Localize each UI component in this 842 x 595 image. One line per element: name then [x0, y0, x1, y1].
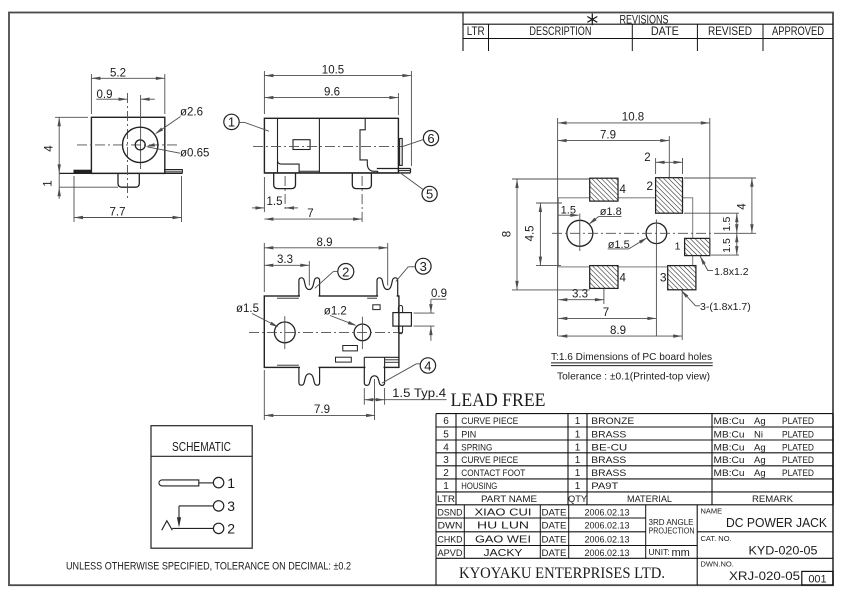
schematic center pin symbol — [159, 480, 199, 486]
svg-text:001: 001 — [808, 573, 826, 585]
svg-text:CHKD: CHKD — [438, 534, 463, 545]
svg-text:CURVE PIECE: CURVE PIECE — [461, 416, 518, 427]
svg-text:Ag: Ag — [754, 416, 766, 427]
svg-text:4.5: 4.5 — [524, 225, 536, 241]
svg-text:DC POWER JACK: DC POWER JACK — [726, 516, 828, 530]
svg-text:DATE: DATE — [542, 507, 567, 518]
sheet number box — [802, 571, 833, 585]
dimension 10.8 — [557, 118, 559, 336]
spring 4 tab notch — [364, 356, 399, 358]
dimension 1.5 lower right — [711, 254, 739, 256]
bottom view small slot a — [373, 305, 380, 310]
svg-text:DATE: DATE — [651, 26, 679, 38]
dimension 7.7 — [73, 176, 75, 222]
dimension 8.9 pcb — [681, 290, 683, 340]
title block grid — [436, 517, 646, 519]
front view bottom pin — [118, 173, 139, 187]
svg-text:APVD: APVD — [438, 548, 463, 559]
svg-text:CAT. NO.: CAT. NO. — [701, 534, 732, 543]
front view center pin hole circle — [135, 140, 145, 150]
svg-text:7.9: 7.9 — [314, 404, 330, 416]
svg-text:6: 6 — [443, 416, 449, 427]
svg-text:DSND: DSND — [438, 507, 463, 518]
curve piece 3 wave tab — [378, 295, 397, 297]
schematic box — [151, 426, 252, 549]
side view bottom-left contact step — [278, 161, 300, 174]
side view right leg axis — [361, 176, 363, 224]
pcb hole 4 bottom-left hatched — [590, 266, 618, 289]
svg-text:PLATED: PLATED — [782, 429, 814, 440]
svg-text:7: 7 — [307, 208, 313, 220]
svg-text:10.5: 10.5 — [322, 65, 344, 77]
svg-text:2006.02.13: 2006.02.13 — [585, 507, 630, 518]
svg-text:7: 7 — [603, 307, 609, 319]
svg-text:1: 1 — [575, 468, 581, 479]
svg-text:10.8: 10.8 — [622, 112, 644, 124]
bottom view bottom edge ledge lines — [277, 364, 299, 366]
svg-text:PLATED: PLATED — [782, 416, 814, 427]
svg-text:DATE: DATE — [542, 521, 567, 532]
svg-text:REVISIONS: REVISIONS — [620, 14, 669, 26]
svg-text:T:1.6 Dimensions of PC boa: T:1.6 Dimensions of PC board holes — [551, 351, 712, 363]
svg-text:SCHEMATIC: SCHEMATIC — [172, 440, 231, 454]
svg-text:MB:Cu: MB:Cu — [714, 468, 745, 479]
svg-text:PA9T: PA9T — [591, 481, 618, 492]
callout 5 pin — [422, 186, 437, 201]
svg-text:MB:Cu: MB:Cu — [714, 429, 745, 440]
svg-text:CONTACT FOOT: CONTACT FOOT — [461, 468, 525, 479]
svg-text:UNLESS OTHERWISE SPECIFIED,: UNLESS OTHERWISE SPECIFIED, TOLERANCE ON… — [66, 560, 351, 572]
svg-text:4: 4 — [620, 184, 627, 196]
svg-text:1.5: 1.5 — [721, 238, 733, 253]
svg-text:1: 1 — [227, 475, 235, 491]
bottom view hole 1.5 — [274, 322, 295, 343]
svg-text:1: 1 — [575, 455, 581, 466]
svg-text:4: 4 — [620, 273, 627, 285]
svg-text:PLATED: PLATED — [782, 468, 814, 479]
parts and title block table — [436, 413, 833, 415]
spring 4 wave tab — [365, 366, 383, 368]
pcb hole 1 right hatched — [685, 238, 710, 255]
svg-text:JACKY: JACKY — [484, 548, 523, 559]
svg-text:HU LUN: HU LUN — [477, 521, 529, 532]
svg-text:3.3: 3.3 — [572, 289, 588, 301]
svg-text:PIN: PIN — [461, 429, 476, 440]
front view base line — [59, 172, 182, 174]
pcb jack outline top view — [558, 198, 692, 267]
svg-text:3: 3 — [227, 498, 235, 514]
svg-text:8: 8 — [501, 231, 513, 237]
svg-text:ø2.6: ø2.6 — [180, 106, 203, 118]
svg-text:REMARK: REMARK — [752, 494, 794, 505]
svg-text:1: 1 — [228, 115, 235, 130]
svg-text:BRONZE: BRONZE — [591, 416, 634, 427]
pcb hole 2 top-right hatched — [656, 178, 683, 214]
callout 3 curve piece — [415, 258, 431, 274]
svg-text:1.5: 1.5 — [721, 217, 733, 232]
schematic terminal 3 — [213, 501, 223, 511]
callout 6 curve piece — [423, 131, 438, 146]
svg-text:5.2: 5.2 — [110, 67, 126, 79]
side view left leg axis — [284, 176, 286, 212]
pcb horizontal centerline — [552, 232, 716, 234]
label 1.8x1.2 with leader — [700, 256, 708, 271]
bottom view horizontal centerline — [249, 331, 404, 333]
label 3-(1.8x1.7) with leader — [681, 290, 696, 306]
dimension 3.3 pcb — [603, 288, 605, 304]
svg-text:1: 1 — [443, 481, 449, 492]
svg-text:5: 5 — [443, 429, 449, 440]
schematic terminal 2 — [213, 523, 223, 533]
svg-text:1: 1 — [575, 429, 581, 440]
svg-text:7.7: 7.7 — [110, 207, 126, 219]
svg-text:3: 3 — [420, 259, 427, 274]
bottom view top edge ledge lines — [277, 297, 299, 299]
revisions asterisk — [591, 14, 593, 26]
svg-text:Ag: Ag — [754, 455, 766, 466]
svg-text:2: 2 — [227, 521, 235, 537]
svg-text:LTR: LTR — [437, 494, 455, 505]
svg-text:BRASS: BRASS — [591, 468, 626, 479]
side view small window detail — [293, 140, 310, 150]
svg-text:DATE: DATE — [542, 534, 567, 545]
svg-text:9.6: 9.6 — [324, 87, 340, 99]
svg-text:1: 1 — [575, 416, 581, 427]
svg-text:1.8x1.2: 1.8x1.2 — [714, 266, 749, 278]
pcb hole circle 1.8 — [567, 220, 593, 246]
dimension 5.2 — [90, 74, 92, 114]
side view left leg — [274, 173, 296, 189]
dimension 10.5 — [263, 71, 265, 114]
dimension 1.5 upper right — [684, 212, 739, 214]
bottom view body outline — [264, 296, 399, 367]
svg-text:2006.02.13: 2006.02.13 — [585, 534, 630, 545]
dimension 3.3 top — [308, 261, 310, 286]
side view curve piece 6 tab — [400, 139, 403, 166]
svg-text:1: 1 — [575, 442, 581, 453]
svg-text:1: 1 — [43, 180, 55, 186]
dimension 1 — [58, 173, 60, 187]
svg-text:8.9: 8.9 — [317, 237, 333, 249]
front view outer barrel circle — [123, 127, 158, 162]
svg-text:3: 3 — [660, 271, 667, 285]
svg-text:2006.02.13: 2006.02.13 — [585, 521, 630, 532]
side view pin 5 foot — [377, 168, 411, 170]
svg-text:2: 2 — [342, 264, 349, 279]
svg-text:PART NAME: PART NAME — [481, 494, 537, 505]
bottom view small slot b — [343, 346, 358, 351]
dimension 1.5 Typ.4 — [363, 388, 365, 405]
front view vertical centerline — [127, 93, 129, 199]
svg-text:BRASS: BRASS — [591, 429, 626, 440]
bottom-left wave tab — [300, 366, 319, 368]
svg-text:NAME: NAME — [701, 507, 723, 516]
pcb hole circle 1.5 — [646, 223, 667, 244]
dimension 4 — [55, 116, 88, 118]
svg-text:3.3: 3.3 — [277, 254, 293, 266]
svg-text:2: 2 — [646, 179, 653, 193]
pcb hole 4 top-left hatched — [590, 178, 618, 201]
front view right mount tab — [165, 170, 183, 173]
dimension 8.9 top — [263, 243, 265, 292]
front view housing body — [91, 117, 164, 173]
schematic spring contact symbol — [162, 521, 173, 530]
side view inner wall line left — [277, 118, 279, 173]
svg-text:8.9: 8.9 — [610, 325, 626, 337]
callout 2 curve piece — [338, 264, 354, 280]
svg-text:ø1.2: ø1.2 — [324, 306, 347, 318]
svg-text:Ag: Ag — [754, 442, 766, 453]
svg-text:DESCRIPTION: DESCRIPTION — [529, 26, 591, 38]
svg-text:LEAD FREE: LEAD FREE — [451, 390, 546, 411]
bottom view small slot c — [336, 357, 352, 362]
svg-text:ø0.65: ø0.65 — [180, 148, 209, 160]
dimension 7 — [264, 218, 362, 220]
svg-text:UNIT:: UNIT: — [649, 547, 670, 557]
svg-text:1.5: 1.5 — [267, 196, 283, 208]
svg-text:2: 2 — [443, 468, 449, 479]
svg-text:2006.02.13: 2006.02.13 — [585, 548, 630, 559]
svg-text:DWN: DWN — [438, 521, 463, 532]
dimension 9.6 — [397, 93, 399, 115]
schematic switch arrow — [178, 506, 180, 518]
svg-text:MATERIAL: MATERIAL — [627, 494, 672, 505]
svg-text:mm: mm — [672, 547, 690, 559]
svg-text:ø1.8: ø1.8 — [600, 206, 622, 218]
dimension 7 pcb — [558, 317, 656, 319]
svg-text:APPROVED: APPROVED — [772, 26, 824, 38]
svg-text:Ag: Ag — [754, 468, 766, 479]
svg-text:QTY: QTY — [568, 494, 588, 505]
svg-text:MB:Cu: MB:Cu — [714, 442, 745, 453]
dimension 4.5 left — [536, 202, 562, 204]
curve piece 2 wave tab — [300, 295, 319, 297]
front view circle axis line — [140, 95, 142, 169]
side view horizontal centerline — [253, 145, 403, 147]
svg-text:1.5 Typ.4: 1.5 Typ.4 — [392, 388, 447, 400]
svg-text:7.9: 7.9 — [600, 129, 616, 141]
svg-text:XRJ-020-05: XRJ-020-05 — [729, 569, 800, 583]
svg-text:BE-CU: BE-CU — [591, 442, 627, 453]
svg-text:3-(1.8x1.7): 3-(1.8x1.7) — [700, 301, 751, 313]
svg-text:2: 2 — [644, 152, 650, 164]
svg-text:ø1.5: ø1.5 — [236, 303, 259, 315]
svg-text:PLATED: PLATED — [782, 455, 814, 466]
svg-text:Tolerance : ±0.1(Printed-top v: Tolerance : ±0.1(Printed-top view) — [557, 371, 710, 383]
svg-text:Ni: Ni — [754, 429, 763, 440]
svg-text:PROJECTION: PROJECTION — [649, 527, 695, 536]
svg-text:BRASS: BRASS — [591, 455, 626, 466]
svg-text:6: 6 — [427, 131, 434, 146]
svg-text:MB:Cu: MB:Cu — [714, 455, 745, 466]
dimension 2 pcb — [655, 158, 657, 174]
side view right internal step — [360, 118, 378, 173]
svg-text:KYD-020-05: KYD-020-05 — [749, 544, 818, 558]
svg-text:1: 1 — [575, 481, 581, 492]
dimension 7.9 bottom — [263, 370, 265, 420]
front view left mount tab — [74, 170, 91, 173]
bottom view hole 1.2 — [354, 324, 371, 341]
side view inner wall line middle — [318, 118, 320, 173]
bottom view right pin protrusion — [393, 313, 412, 327]
svg-text:4: 4 — [737, 203, 749, 210]
front view pin extension line — [59, 186, 118, 188]
schematic terminal 1 — [213, 477, 223, 487]
svg-text:PLATED: PLATED — [782, 442, 814, 453]
callout 1 housing — [224, 114, 239, 129]
pcb hole 3 bottom hatched — [668, 266, 696, 290]
svg-text:MB:Cu: MB:Cu — [714, 416, 745, 427]
side view housing body — [264, 118, 398, 173]
svg-text:3: 3 — [443, 455, 449, 466]
side view bottom line — [264, 172, 410, 174]
revisions table — [462, 13, 464, 52]
dimension 8 left — [512, 178, 590, 180]
front view horizontal centerline — [77, 144, 178, 146]
svg-text:XIAO CUI: XIAO CUI — [475, 507, 532, 518]
svg-text:4: 4 — [424, 358, 431, 373]
svg-text:5: 5 — [426, 187, 433, 202]
dimension 7.9 pcb — [668, 136, 670, 177]
side view right leg — [352, 173, 371, 189]
svg-text:4: 4 — [44, 145, 56, 152]
svg-text:GAO WEI: GAO WEI — [475, 534, 531, 545]
svg-text:REVISED: REVISED — [708, 26, 752, 38]
svg-text:LTR: LTR — [467, 26, 485, 38]
svg-text:KYOYAKU ENTERPRISES LTD.: KYOYAKU ENTERPRISES LTD. — [459, 565, 665, 582]
svg-text:HOUSING: HOUSING — [461, 481, 497, 492]
svg-text:4: 4 — [443, 442, 449, 453]
dimension 4 right — [684, 177, 756, 179]
svg-text:DATE: DATE — [542, 548, 567, 559]
svg-text:DWN.NO.: DWN.NO. — [701, 560, 734, 569]
svg-text:0.9: 0.9 — [431, 288, 447, 300]
svg-text:CURVE PIECE: CURVE PIECE — [461, 455, 518, 466]
svg-text:1: 1 — [675, 241, 681, 253]
callout 4 spring — [420, 358, 435, 373]
svg-text:SPRING: SPRING — [461, 442, 492, 453]
